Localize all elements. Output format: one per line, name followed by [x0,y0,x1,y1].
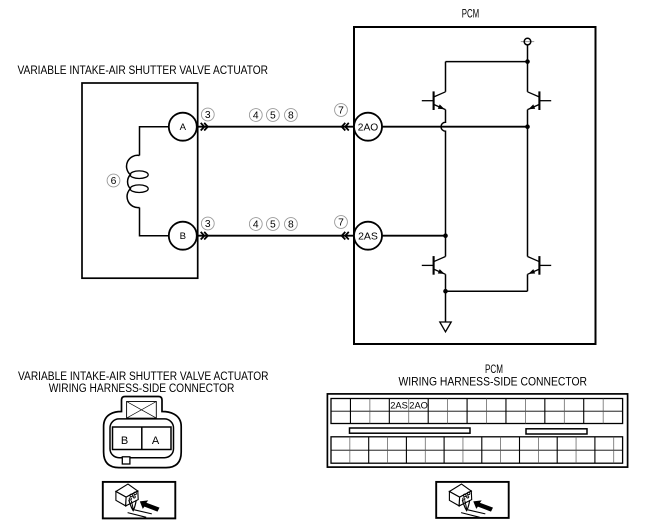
svg-text:PCM: PCM [462,8,479,21]
wire Q3 emitter to bottom rail [445,274,447,291]
circled 3 (wire B) [201,217,214,230]
actuator connector foot [122,457,130,464]
wire 2AO to H-bridge node [382,126,528,128]
svg-text:5: 5 [270,220,276,231]
svg-text:4: 4 [253,220,259,231]
wire to ground [445,291,447,322]
PCM connector bottom terminal block [331,437,623,463]
svg-text:5: 5 [270,111,276,122]
PCM connector slot left [350,428,471,433]
actuator box [82,83,198,278]
terminal B circle [169,222,197,250]
svg-text:A: A [152,435,160,447]
PCM connector slot right [526,429,587,434]
chevrons into 2AS [342,232,349,240]
svg-text:4: 4 [253,111,259,122]
icon box: disconnect PCM connector [436,482,509,518]
wire 2AS to H-bridge node [382,235,446,237]
chevrons out of B [201,232,208,240]
PCM connector outer frame [327,394,627,467]
coil winding arcs [127,155,140,207]
circled 7 (wire B) [335,216,348,229]
circled 4 (wire A) [249,109,262,122]
wire A to PCM 2AO [198,126,354,128]
pin 2AO circle [354,113,382,141]
circled 4 (wire B) [249,218,262,231]
actuator connector inner shell [110,419,174,458]
wire rail to Q1 collector [445,62,447,92]
transistor Q4 (bottom right NPN) [528,256,552,275]
actuator connector terminal cavities B and A [113,427,172,450]
svg-text:2AS: 2AS [358,231,378,242]
svg-text:2AO: 2AO [409,401,428,411]
svg-text:7: 7 [338,218,344,229]
svg-text:2AO: 2AO [358,122,378,133]
svg-text:3: 3 [205,219,211,230]
circled 8 (wire A) [285,109,298,122]
junction dot 2AO node [525,124,530,129]
coil loop 2 [130,185,148,193]
svg-text:8: 8 [288,220,294,231]
wire Q2 emitter down to Q4 collector [527,110,529,257]
circled 6 label (coil) [107,174,120,187]
power symbol B+ [521,38,534,45]
actuator connector outer shell [104,397,182,468]
chevrons out of A [201,123,208,131]
wire Q4 emitter to bottom rail [527,274,529,291]
ground symbol [440,322,451,332]
icon box: disconnect actuator connector [103,482,176,519]
top rail wire [446,61,528,63]
circled 5 (wire A) [267,109,280,122]
terminal A circle [169,113,197,141]
circled 5 (wire B) [267,218,280,231]
PCM connector bottom block column lines [350,437,614,463]
svg-text:7: 7 [338,106,344,117]
chevrons into 2AO [342,123,349,131]
wire terminal A to coil [140,127,170,156]
circled 8 (wire B) [285,218,298,231]
transistor Q3 (bottom left NPN) [422,256,446,275]
wire power to top rail [527,45,529,62]
svg-text:6: 6 [111,176,117,187]
actuator connector lock tab with X [127,402,157,419]
disconnect icon (PCM side) [449,484,493,517]
svg-text:WIRING HARNESS-SIDE CONNECTOR: WIRING HARNESS-SIDE CONNECTOR [49,381,235,395]
transistor Q1 (top left NPN) [422,91,446,110]
junction dot top rail [525,59,530,64]
wire rail to Q2 collector [527,62,529,92]
disconnect icon (actuator side) [116,484,160,517]
PCM connector top block column lines [350,399,603,424]
circled 3 (wire A) [201,108,214,121]
PCM connector top terminal block [331,399,623,424]
PCM box [354,27,596,344]
wire Q1 emitter down with hop over 2AO [441,110,446,257]
wire coil to terminal B [140,208,170,236]
circled 7 (wire A) [335,104,348,117]
coil loop 1 [130,171,148,179]
svg-text:B: B [180,231,186,242]
svg-text:8: 8 [288,111,294,122]
svg-text:A: A [180,122,187,133]
svg-text:3: 3 [205,110,211,121]
svg-text:WIRING HARNESS-SIDE CONNECTOR: WIRING HARNESS-SIDE CONNECTOR [399,375,588,389]
junction dot 2AS node [443,233,448,238]
transistor Q2 (top right NPN) [528,91,552,110]
svg-text:VARIABLE INTAKE-AIR SHUTTER VA: VARIABLE INTAKE-AIR SHUTTER VALVE ACTUAT… [18,63,269,77]
svg-text:B: B [121,435,128,447]
bottom rail wire [446,290,528,292]
wire B to PCM 2AS [198,235,354,237]
svg-text:2AS: 2AS [390,401,408,411]
junction dot bottom rail [443,289,448,294]
pin 2AS circle [354,222,382,250]
